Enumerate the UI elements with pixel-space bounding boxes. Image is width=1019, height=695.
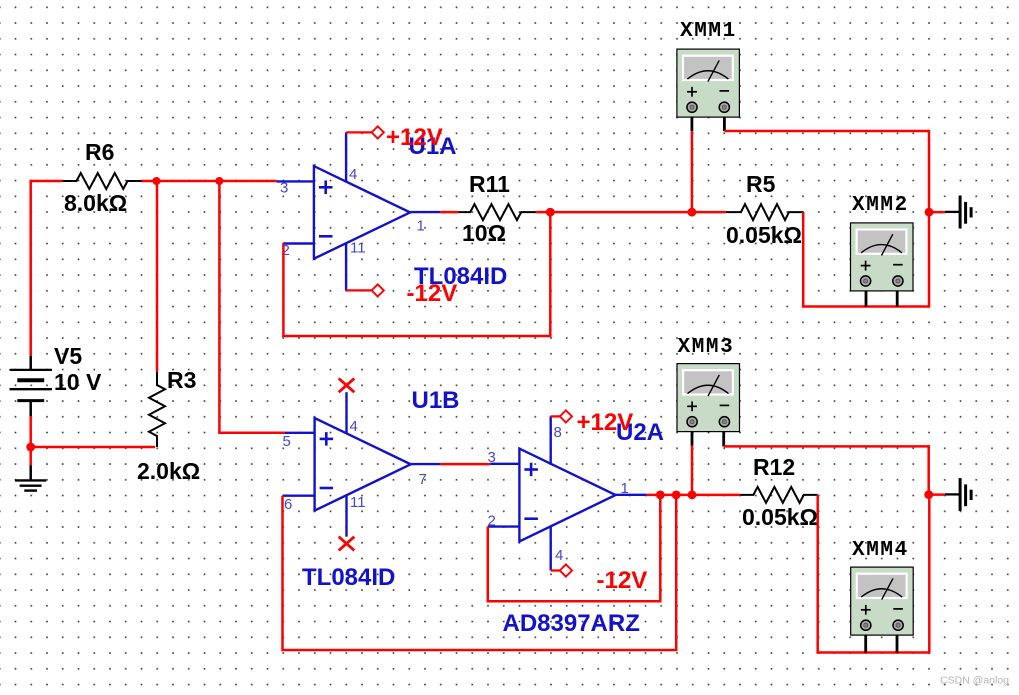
op-amp U2A AD8397ARZ	[488, 416, 647, 570]
svg-text:XMM1: XMM1	[680, 20, 737, 43]
wire: output node to XMM1 tap	[550, 211, 726, 214]
node: bottom-right ground junction	[924, 490, 933, 499]
resistor R3	[137, 367, 200, 484]
svg-text:4: 4	[349, 166, 357, 183]
multimeter XMM1	[677, 20, 740, 131]
battery V5 10V	[10, 343, 102, 416]
multimeter XMM4	[851, 539, 914, 653]
node: U2A output junction 1	[656, 491, 665, 500]
resistor R12	[740, 454, 818, 530]
wire: node to ground	[929, 211, 945, 214]
svg-text:6: 6	[284, 496, 292, 513]
wire: battery negative to ground	[29, 416, 32, 466]
wire: R6 right to U1A pin3	[142, 180, 277, 183]
svg-text:R3: R3	[167, 367, 196, 393]
wire: XMM3 - terminal right and down to ground node	[724, 446, 929, 494]
svg-text:0.05kΩ: 0.05kΩ	[742, 504, 818, 530]
svg-text:XMM4: XMM4	[852, 539, 909, 562]
svg-text:+12V: +12V	[577, 409, 634, 436]
svg-text:U1B: U1B	[412, 387, 460, 414]
node: U2A output junction 2	[672, 491, 681, 500]
svg-text:3: 3	[488, 449, 496, 466]
multimeter XMM2	[851, 194, 914, 307]
svg-text:R6: R6	[85, 139, 114, 165]
svg-text:R12: R12	[753, 454, 795, 480]
svg-text:10 V: 10 V	[54, 369, 102, 395]
no-connect X on U1B pin11	[339, 537, 355, 551]
svg-text:3: 3	[280, 180, 288, 197]
wire: U1A feedback loop to pin2	[283, 212, 550, 336]
svg-text:11: 11	[350, 240, 366, 257]
node: U2A output junction 3 (XMM3 tap)	[688, 491, 697, 500]
wire: U1B output to U2A pin3	[440, 463, 490, 466]
svg-text:10Ω: 10Ω	[462, 220, 506, 246]
wire: XMM1 + terminal down to node	[691, 131, 694, 213]
svg-text:V5: V5	[54, 343, 82, 369]
power connector -12V of U1A	[346, 280, 457, 307]
svg-text:4: 4	[350, 418, 358, 435]
svg-text:-12V: -12V	[597, 567, 648, 594]
wire: battery V5 positive to R6 left (left rail)	[31, 181, 63, 356]
wire: XMM1 - terminal right and down to ground node	[724, 131, 929, 212]
svg-text:1: 1	[417, 218, 425, 235]
power connector -12V of U2A	[551, 564, 648, 594]
ground: battery ground symbol	[15, 466, 46, 491]
multimeter XMM3	[677, 336, 740, 446]
svg-text:XMM3: XMM3	[678, 336, 735, 359]
wire: junction down to R3 top	[156, 181, 159, 372]
svg-text:TL084ID: TL084ID	[302, 564, 395, 591]
op-amp U1A TL084ID	[276, 132, 440, 290]
resistor R5	[726, 171, 803, 248]
svg-text:4: 4	[555, 547, 563, 564]
power connector +12V of U2A	[551, 409, 634, 436]
svg-text:11: 11	[350, 494, 366, 511]
wire: R3 bottom to battery negative junction	[31, 446, 155, 449]
svg-text:+12V: +12V	[386, 124, 443, 151]
wire: U2A feedback pin2 to output node	[488, 495, 661, 601]
wire: XMM3 + terminal down to node	[691, 445, 694, 495]
svg-text:5: 5	[283, 433, 291, 450]
svg-text:7: 7	[419, 471, 427, 488]
node: junction battery/R3/ground	[26, 443, 35, 452]
svg-text:R11: R11	[469, 171, 510, 197]
wire: U1A output to R11	[440, 211, 458, 214]
svg-text:1: 1	[621, 480, 629, 497]
svg-text:AD8397ARZ: AD8397ARZ	[503, 610, 640, 637]
svg-text:8: 8	[554, 424, 562, 441]
wire: R12 right down to XMM4 bottom rail	[818, 495, 930, 653]
ground: top right ground symbol	[945, 196, 971, 229]
power connector +12V of U1A	[346, 124, 443, 151]
resistor R6	[63, 139, 142, 216]
svg-text:2.0kΩ: 2.0kΩ	[137, 458, 200, 484]
wire: junction down and right to U1B pin5	[219, 181, 285, 433]
node: XMM1 tap	[688, 208, 697, 217]
svg-text:R5: R5	[746, 171, 776, 197]
node: junction R6/R3	[153, 177, 161, 185]
op-amp U1B TL084ID	[283, 392, 441, 537]
svg-text:XMM2: XMM2	[852, 194, 909, 217]
svg-text:0.05kΩ: 0.05kΩ	[726, 222, 802, 248]
node: top-right ground junction	[925, 208, 934, 217]
node: junction R6/U1B branch	[215, 177, 223, 185]
resistor R11	[458, 171, 535, 246]
no-connect X on U1B pin4	[339, 378, 355, 392]
wire: U2A output to R12	[647, 494, 741, 497]
svg-text:CSDN @anlog: CSDN @anlog	[940, 675, 1009, 687]
wire: R5 right down to XMM2 bottom rail	[803, 212, 929, 306]
node: U1A feedback tap	[546, 208, 555, 217]
ground: bottom right ground symbol	[945, 478, 971, 511]
wire: R11 right to output node	[536, 211, 551, 214]
svg-text:-12V: -12V	[407, 280, 458, 307]
wire: node to ground	[929, 493, 945, 496]
wire: U1B pin6 feedback from U2A output	[283, 495, 677, 650]
svg-text:8.0kΩ: 8.0kΩ	[64, 190, 127, 216]
